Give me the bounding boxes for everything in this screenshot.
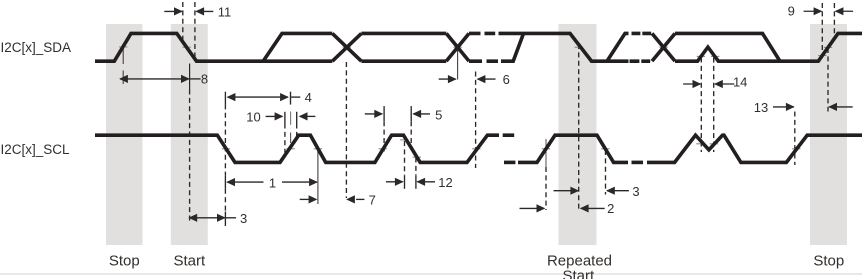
tick SDA spike right leg [711,55,719,57]
solid end bar, meas 4 right [290,92,292,105]
SDA: data rails X1 to X2 [361,33,446,61]
gray band Start [171,24,208,245]
dashed extension, SCL fall 70% (meas 12 left) [404,141,406,175]
tick SDA fall 1 mid [183,46,191,48]
SCL: break dash low [504,161,515,165]
thin extension line, SCL fall mid (meas 1 right / 7 left) [317,147,319,205]
tick SCL rise mid before break [472,148,480,150]
tick SCL pulse1 fall mid [314,148,322,150]
dashed extension line, spike right (meas 14 right) [713,58,715,153]
dashed extension, SCL fall top (meas 5 right) [410,121,412,147]
dimension 3 double arrow at start (hold time) [188,214,236,222]
dimension 4 double arrow (SCL low to rise) [227,93,289,101]
dimension 4 label stub [291,96,300,98]
dashed extension line, SDA rise foot (meas 9 left) [821,3,823,58]
svg-text:10: 10 [246,109,260,124]
svg-text:11: 11 [218,4,232,19]
svg-text:Start: Start [173,252,206,269]
dimension 8 double arrow (stop to start bus free) [119,75,201,83]
svg-text:3: 3 [632,184,639,199]
svg-text:1: 1 [269,175,276,190]
SCL: pulse with spike notch, final rise to end [647,135,862,162]
tick SCL notch left leg [696,143,704,145]
dashed extension line, SCL rise mid at stop (meas 13 left) [794,112,796,166]
dimension 5 arrows (SCL high pulse) [365,110,430,118]
tick SCL rise mid at stop [792,148,800,150]
dimension 6 arrows (data valid) [439,75,496,83]
tick SDA crossover 1 center [343,46,351,48]
dashed extension line below (meas 2 left) [545,167,547,210]
tick SCL pulse2 rise mid [379,148,387,150]
dashed extension, SCL rise top (meas 10 right) [296,124,298,138]
SCL: main train (start, clock pulses) [95,135,499,162]
tick SCL fall mid after repeated start [601,148,609,150]
dashed extension line, SDA fall to Start (meas 3 left) [189,90,191,223]
gray band Stop (last) [810,24,847,245]
dashed extension line, SDA rise top (meas 9 right) [833,3,835,40]
tick SCL fall 1 mid [222,148,230,150]
solid end bar, meas 10 left [284,112,286,124]
solid end bar, meas 4 left [224,92,226,105]
dimension 1 double arrow (SCL low pulse) [226,178,318,186]
dashed extension, SCL rise foot (meas 10 left) [284,124,286,153]
gray band Repeated Start [559,24,597,245]
dimension 12 arrows (SCL fall time) [386,178,435,186]
svg-text:4: 4 [305,90,312,105]
dimension 7 left-arrow at SDA transition [346,195,364,203]
svg-text:7: 7 [369,193,376,208]
solid end bar, meas 12 right [415,175,417,189]
tick SDA stop rise foot [818,55,826,57]
SCL: low dash [632,161,644,165]
dimension 14 arrows (spike width) [683,80,734,88]
solid end bar, meas 3 right [224,212,226,227]
thin extension line, SDA crossover 2 (meas 6 left) [457,48,459,80]
dimension 3 arrows at repeated start (hold) [554,187,629,195]
tick SCL pulse2 fall 30% [413,156,421,158]
tick SDA spike left leg [697,55,705,57]
SDA: crossover X3 [652,33,675,61]
SCL: break dash high [503,133,515,137]
dashed extension, SCL rise mid (meas 5 left) [383,121,385,152]
dashed extension line, SCL fall mid (meas 4/1/3 shared) [224,104,226,175]
dimension 13 arrows (stop setup) [773,103,853,111]
dimension 11 arrows (SDA fall time) [164,7,213,15]
thin extension line, SDA rise mid (meas 8 left lower) [122,71,124,85]
solid end bar, meas 12 left [404,175,406,189]
dimension 7 right-arrow at SCL fall [300,195,318,203]
dashed extension line, spike left (meas 14 left) [700,58,702,153]
dashed extension line, SDA fall mid repeated start (meas 2 right / 3 left) [578,44,580,211]
tick SDA rise 1 mid [119,46,127,48]
gray band Stop (first) [106,24,143,245]
svg-text:8: 8 [201,72,208,87]
SDA: break dashes 2 [630,33,652,61]
SDA: rails after X2 [469,33,482,61]
SDA: high rail, fall, low, stop-rise to end [675,33,862,61]
svg-text:2: 2 [607,201,614,216]
SCL: pulse across repeated start [518,135,628,162]
svg-text:Stop: Stop [109,252,140,269]
svg-text:12: 12 [438,175,452,190]
dimension 10 arrows (SCL rise time) [266,112,316,120]
solid end bar, meas 1 left [224,175,226,189]
tick SDA crossover 2 center [453,46,461,48]
svg-text:Start: Start [562,268,595,279]
SDA: stop-rise, start-fall, low rail to crossover 1 [95,33,332,61]
tick SCL rise mid before repeated start [542,148,550,150]
tick SCL pulse1 rise mid [286,148,294,150]
SDA: crossover X2 [446,33,469,61]
dash of extension, SCL rise mid (meas 4 right) [290,133,292,144]
SDA: low dash tail rising to high before repeated start [501,33,524,61]
SDA: rising branch to high rail [263,33,332,61]
svg-text:6: 6 [503,72,510,87]
SDA: rising branch after repeated start [607,33,629,61]
dashed extension line, SDA fall start (meas 11 left) [182,2,184,42]
thin extension line, SDA rise mid (meas 8 left upper) [122,44,124,64]
svg-text:3: 3 [240,211,247,226]
SDA: break dashes 1 [485,33,499,61]
tick SCL pulse2 fall 70% [400,139,408,141]
dashed extension line, SDA rise mid at stop (meas 13 right) [827,48,829,112]
svg-text:14: 14 [733,75,747,90]
faint bottom rule [0,273,862,275]
gray extension bar, SCL rise mid (meas 4 right) [290,112,292,125]
solid end bar, meas 10 right [296,112,298,124]
dimension 2 arrows (repeated start setup) [520,204,605,212]
long dashed extension line, SDA crossover 1 (meas 7 right) [345,62,347,198]
dashed extension line below meas 1 left [224,189,226,212]
dashed extension line, SCL rise mid (meas 6 right) [475,72,477,169]
thin extension line, SCL rise mid before repeated start [545,139,547,167]
svg-text:Stop: Stop [813,252,844,269]
tick SDA crossover 3 center [659,46,667,48]
solid end bar, meas 5 right [410,106,412,121]
SDA: high rail, repeated-start fall, low rail [499,33,629,61]
dimension 9 arrows (SDA rise time at stop) [804,7,854,15]
SDA: crossover X1 [332,33,361,61]
svg-text:I2C[x]_SDA: I2C[x]_SDA [1,40,72,55]
solid extension bar at measure 8 right end [189,64,191,90]
svg-text:I2C[x]_SCL: I2C[x]_SCL [1,142,71,157]
dashed extension line, SCL fall mid after repeated start (meas 3 right) [605,150,607,195]
solid end bar, meas 5 left [383,106,385,121]
dashed extension line, SDA fall end (meas 11 right) [194,2,196,59]
SDA: low rail with spike bump [675,47,780,61]
tick SDA repeated-start fall mid [575,46,583,48]
svg-text:13: 13 [754,100,768,115]
tick SCL notch right leg [710,143,718,145]
dashed extension, SCL fall 30% (meas 12 right) [415,158,417,176]
svg-text:5: 5 [435,108,442,123]
svg-text:9: 9 [788,3,795,18]
tick SDA stop rise mid [824,46,832,48]
